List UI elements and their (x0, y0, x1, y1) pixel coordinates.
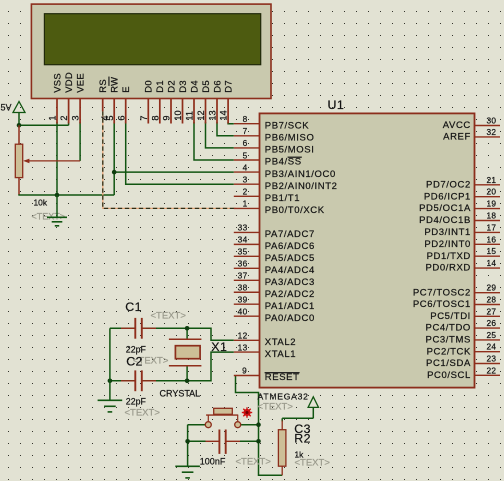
svg-text:<TEXT>: <TEXT> (151, 311, 187, 322)
ground (reset button) (175, 466, 200, 478)
LCD pin 2 (VDD) stub, name and number (59, 72, 74, 124)
svg-text:XTAL1: XTAL1 (265, 349, 296, 360)
svg-text:PD6/ICP1: PD6/ICP1 (424, 191, 471, 202)
wire RS to PB0 (dragged, dashed) (103, 111, 236, 208)
svg-text:RS: RS (97, 79, 108, 93)
svg-text:8: 8 (243, 114, 248, 124)
svg-text:PA5/ADC5: PA5/ADC5 (265, 253, 315, 264)
svg-text:5V: 5V (1, 103, 12, 113)
svg-text:PC1/SDA: PC1/SDA (426, 358, 471, 369)
svg-text:23: 23 (487, 354, 497, 364)
svg-text:D6: D6 (211, 80, 222, 93)
svg-text:PD0/RXD: PD0/RXD (426, 263, 471, 274)
U1 pin 26 (PC4/TDO) (426, 318, 500, 334)
svg-text:E: E (120, 86, 131, 93)
svg-text:D0: D0 (143, 80, 154, 93)
U1 pin 16 (PD2/INT0) (424, 234, 500, 250)
svg-text:D5: D5 (200, 80, 211, 93)
U1 pin 14 (PD0/RXD) (426, 258, 500, 274)
svg-text:PC4/TDO: PC4/TDO (426, 323, 471, 334)
svg-text:34: 34 (238, 235, 248, 245)
crystal X1 (169, 339, 202, 366)
svg-text:30: 30 (487, 116, 497, 126)
node RESET junction button (256, 422, 261, 427)
svg-text:PD4/OC1B: PD4/OC1B (419, 215, 471, 226)
svg-text:17: 17 (487, 222, 497, 232)
U1 pin 39 (PA1/ADC1) (234, 295, 315, 312)
svg-text:9: 9 (242, 365, 247, 375)
svg-text:PC0/SCL: PC0/SCL (427, 370, 471, 381)
U1 RESET pin 9 (234, 365, 300, 383)
svg-text:29: 29 (487, 283, 497, 293)
svg-text:33: 33 (238, 223, 248, 233)
U1 pin 28 (PC6/TOSC1) (413, 295, 500, 311)
U1 pin 5 (PB4/SS) (234, 150, 302, 167)
svg-text:PB1/T1: PB1/T1 (265, 193, 300, 204)
U1 pin 36 (PA4/ADC4) (234, 259, 315, 276)
svg-text:22: 22 (487, 365, 497, 375)
wire RW branch to PB3 (114, 171, 234, 173)
U1 pin 21 (PD7/OC2) (426, 175, 500, 191)
svg-text:VDD: VDD (63, 72, 74, 93)
svg-text:14: 14 (219, 110, 229, 120)
svg-text:15: 15 (487, 246, 497, 256)
svg-text:1: 1 (48, 115, 58, 120)
svg-text:PC6/TOSC1: PC6/TOSC1 (413, 299, 471, 310)
svg-text:PD1/TXD: PD1/TXD (427, 251, 471, 262)
svg-text:26: 26 (487, 318, 497, 328)
svg-text:PB5/MOSI: PB5/MOSI (265, 145, 315, 156)
U1 pin 23 (PC1/SDA) (426, 354, 500, 370)
wire D6 to PB6 (217, 122, 234, 136)
svg-text:38: 38 (238, 283, 248, 293)
svg-text:5: 5 (243, 150, 248, 160)
node XTAL1 junction left (108, 379, 113, 384)
svg-text:11: 11 (185, 111, 195, 121)
U1 XTAL1 pin 13 (234, 342, 296, 359)
node XTAL2 junction (185, 326, 190, 331)
svg-text:10k: 10k (34, 198, 48, 208)
svg-text:100nF: 100nF (200, 456, 226, 466)
svg-text:2: 2 (243, 187, 248, 197)
U1 pin 29 (PC7/TOSC2) (413, 283, 500, 299)
wire VEE to pot wiper (79, 122, 81, 161)
wire D5 to PB5 (206, 122, 234, 148)
svg-text:U1: U1 (328, 98, 345, 112)
svg-text:D7: D7 (222, 80, 233, 93)
svg-text:PD2/INT0: PD2/INT0 (424, 239, 471, 250)
U1 pin 37 (PA3/ADC3) (234, 271, 315, 288)
svg-text:16: 16 (487, 234, 497, 244)
wire button-C3 left rail (187, 425, 189, 467)
svg-text:37: 37 (238, 271, 248, 281)
svg-text:39: 39 (238, 295, 248, 305)
svg-text:ATMEGA32: ATMEGA32 (258, 392, 309, 402)
svg-text:PB3/AIN1/OC0: PB3/AIN1/OC0 (265, 169, 336, 180)
svg-text:PB7/SCK: PB7/SCK (265, 120, 309, 131)
wire 5V-to-VDD net (19, 113, 69, 127)
svg-text:<TEXT>: <TEXT> (125, 408, 161, 419)
U1 pin 30 (AVCC) (443, 116, 500, 132)
svg-text:PC7/TOSC2: PC7/TOSC2 (413, 287, 471, 298)
U1 pin 4 (PB3/AIN1/OC0) (234, 162, 336, 179)
node RESET junction C3 (256, 439, 261, 444)
svg-text:<TEXT>: <TEXT> (295, 458, 331, 469)
svg-text:7: 7 (243, 126, 248, 136)
svg-text:PC5/TDI: PC5/TDI (430, 311, 471, 322)
node button left junction (185, 439, 190, 444)
LCD pin 5 (RW) stub, name and number (105, 77, 120, 124)
wire D4 to PB4 (194, 122, 234, 160)
svg-text:6: 6 (243, 138, 248, 148)
svg-text:RW: RW (109, 77, 120, 93)
svg-text:RESET: RESET (265, 372, 300, 383)
LCD pin 7 (D0) stub, name and number (139, 80, 154, 123)
U1 pin 40 (PA0/ADC0) (234, 306, 315, 323)
U1 pin 25 (PC3/TMS) (426, 330, 500, 346)
svg-text:PA7/ADC7: PA7/ADC7 (265, 229, 315, 240)
U1 pin 22 (PC0/SCL) (427, 365, 500, 381)
wire ground net: pot bottom, VSS, RW (18, 122, 114, 195)
node XTAL1 junction right (185, 379, 190, 384)
U1 pin 17 (PD3/INT1) (424, 222, 500, 238)
svg-text:PA0/ADC0: PA0/ADC0 (265, 313, 315, 324)
U1 pin 6 (PB5/MOSI) (234, 138, 315, 155)
U1 pin 7 (PB6/MISO) (234, 126, 315, 143)
U1 pin 32 (AREF) (443, 127, 500, 143)
svg-text:PB2/AIN0/INT2: PB2/AIN0/INT2 (265, 181, 338, 192)
LCD pin 4 (RS) stub, name and number (97, 79, 110, 121)
svg-text:27: 27 (487, 306, 497, 316)
svg-text:D4: D4 (188, 80, 199, 93)
node RW junction (112, 170, 117, 175)
node ground junction under pin 1 (55, 193, 60, 198)
U1 pin 18 (PD4/OC1B) (419, 211, 500, 227)
svg-text:C2: C2 (126, 354, 143, 368)
svg-text:6: 6 (116, 115, 126, 120)
svg-text:PA4/ADC4: PA4/ADC4 (265, 265, 315, 276)
svg-text:PB4/SS: PB4/SS (265, 157, 302, 168)
LCD module LM016L (31, 4, 271, 98)
svg-text:7: 7 (139, 115, 149, 120)
svg-text:28: 28 (487, 295, 497, 305)
LCD pin 3 (VEE) stub, name and number (71, 73, 86, 124)
svg-text:12: 12 (238, 331, 248, 341)
svg-text:XTAL2: XTAL2 (265, 337, 296, 348)
U1 pin 34 (PA6/ADC6) (234, 235, 315, 252)
svg-text:19: 19 (487, 199, 497, 209)
wire D7 to PB7 (228, 122, 234, 124)
svg-text:PD5/OC1A: PD5/OC1A (419, 203, 471, 214)
wire XTAL2 net (C1 - crystal top - pin 12) (110, 328, 234, 340)
svg-text:PA6/ADC6: PA6/ADC6 (265, 241, 315, 252)
svg-text:PB6/MISO: PB6/MISO (265, 133, 315, 144)
svg-text:VSS: VSS (51, 73, 62, 93)
U1 XTAL2 pin 12 (234, 331, 296, 348)
ground (crystal caps) (98, 381, 123, 412)
LCD pin 10 (D3) stub, name and number (173, 80, 188, 123)
U1 pin 20 (PD6/ICP1) (424, 187, 500, 203)
svg-text:D3: D3 (177, 80, 188, 93)
U1 pin 38 (PA2/ADC2) (234, 283, 315, 300)
power +5V symbol (left) (1, 102, 26, 113)
svg-text:40: 40 (238, 306, 248, 316)
svg-text:10: 10 (173, 110, 183, 120)
U1 pin 19 (PD5/OC1A) (419, 199, 500, 215)
svg-text:C1: C1 (125, 300, 142, 314)
svg-text:PC3/TMS: PC3/TMS (426, 335, 471, 346)
op-amp U1 ATMEGA32 body (260, 113, 475, 387)
ground (under 10k pot net) (47, 195, 67, 226)
wire XTAL1 net (C2 - crystal bottom - pin 13) (110, 352, 234, 381)
svg-text:4: 4 (243, 162, 248, 172)
U1 pin 24 (PC2/TCK) (427, 342, 500, 358)
potentiometer RV1 10k (15, 144, 80, 177)
svg-text:PC2/TCK: PC2/TCK (427, 346, 471, 357)
svg-text:22pF: 22pF (126, 397, 147, 407)
svg-text:1: 1 (243, 199, 248, 209)
svg-text:D1: D1 (154, 80, 165, 93)
svg-text:9: 9 (162, 115, 172, 120)
svg-text:D2: D2 (165, 80, 176, 93)
power +5V arrow symbol (at R2) (308, 397, 318, 408)
svg-text:13: 13 (208, 110, 218, 120)
LCD pin 14 (D7) stub, name and number (219, 80, 234, 123)
svg-text:3: 3 (243, 175, 248, 185)
svg-text:AREF: AREF (443, 132, 471, 143)
svg-text:CRYSTAL: CRYSTAL (160, 388, 201, 398)
svg-text:36: 36 (238, 259, 248, 269)
svg-text:<TEXT>: <TEXT> (258, 402, 294, 413)
wire left rail C1-C2 (109, 328, 111, 381)
svg-text:21: 21 (487, 175, 497, 185)
resistor R2 1k (278, 430, 286, 467)
svg-text:PB0/T0/XCK: PB0/T0/XCK (265, 205, 325, 216)
U1 pin 15 (PD1/TXD) (427, 246, 500, 262)
svg-text:8: 8 (150, 115, 160, 120)
button red indicator (242, 407, 252, 417)
svg-text:PA1/ADC1: PA1/ADC1 (265, 301, 315, 312)
svg-text:AVCC: AVCC (443, 120, 471, 131)
U1 pin 33 (PA7/ADC7) (234, 223, 315, 240)
svg-text:X1: X1 (211, 340, 227, 354)
pushbutton (reset) (205, 408, 240, 427)
LCD pin 9 (D2) stub, name and number (162, 80, 177, 123)
svg-text:<TEXT>: <TEXT> (236, 456, 272, 467)
U1 pin 1 (PB0/T0/XCK) (234, 199, 325, 216)
svg-text:12: 12 (196, 110, 206, 120)
U1 pin 3 (PB2/AIN0/INT2) (234, 175, 338, 192)
LCD pin 1 (VSS) stub, name and number (48, 73, 63, 124)
wire R2 top to +5V arrow (282, 407, 313, 429)
svg-text:14: 14 (487, 258, 497, 268)
svg-text:VEE: VEE (74, 73, 85, 93)
svg-text:13: 13 (238, 342, 248, 352)
svg-text:22pF: 22pF (126, 345, 147, 355)
svg-text:PD7/OC2: PD7/OC2 (426, 179, 471, 190)
node VDD junction at 5V (17, 123, 22, 128)
svg-text:3: 3 (71, 115, 81, 120)
wire RESET net (188, 376, 283, 476)
svg-text:18: 18 (487, 211, 497, 221)
U1 pin 8 (PB7/SCK) (234, 114, 309, 131)
svg-text:32: 32 (487, 127, 497, 137)
svg-text:PD3/INT1: PD3/INT1 (424, 227, 471, 238)
capacitor C1 22pF (121, 318, 156, 339)
LCD pin 8 (D1) stub, name and number (150, 80, 165, 123)
LCD pin 12 (D5) stub, name and number (196, 80, 211, 123)
svg-text:2: 2 (59, 115, 69, 120)
svg-text:PA2/ADC2: PA2/ADC2 (265, 289, 315, 300)
LCD pin 6 (E) stub, name and number (116, 86, 131, 123)
wire pot top lead (18, 125, 20, 144)
svg-text:20: 20 (487, 187, 497, 197)
svg-text:24: 24 (487, 342, 497, 352)
LCD pin 13 (D6) stub, name and number (208, 80, 223, 123)
LCD pin 11 (D4) stub, name and number (185, 80, 200, 123)
U1 pin 2 (PB1/T1) (234, 187, 300, 204)
svg-text:R2: R2 (294, 432, 311, 446)
capacitor C3 100nF (206, 430, 241, 454)
svg-text:PA3/ADC3: PA3/ADC3 (265, 277, 315, 288)
wire E to PB2 (126, 122, 234, 184)
U1 pin 27 (PC5/TDI) (430, 306, 500, 322)
U1 pin 35 (PA5/ADC5) (234, 247, 315, 264)
svg-text:5: 5 (105, 115, 115, 120)
svg-text:35: 35 (238, 247, 248, 257)
svg-text:25: 25 (487, 330, 497, 340)
capacitor C2 22pF (121, 370, 156, 391)
